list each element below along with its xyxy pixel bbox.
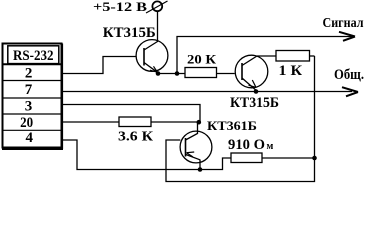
wire signal riser to Signal output — [177, 37, 352, 74]
wire Q3 base left and down to bottom rail — [166, 56, 315, 182]
connector row separator 20/4 — [3, 129, 62, 131]
transistor Q1 emitter diagonal — [144, 63, 158, 73]
wire pin 4 down and right to Q3 collector rail — [63, 140, 201, 170]
transistor Q3 emitter diagonal — [186, 155, 200, 160]
svg-text:Сигнал: Сигнал — [323, 16, 364, 31]
transistor Q2 collector diagonal — [242, 56, 257, 66]
transistor Q3 emitter arrowhead — [187, 152, 195, 157]
wire Q2 collector to resistor R2 — [257, 55, 276, 57]
resistor R4 910 body — [231, 153, 262, 163]
transistor Q3 collector diagonal and lead up — [186, 122, 198, 140]
connector row separator 7/3 — [3, 97, 62, 99]
transistor Q2 emitter arrowhead — [249, 80, 257, 87]
svg-text:2: 2 — [25, 66, 33, 82]
svg-text:КТ361Б: КТ361Б — [207, 118, 257, 133]
transistor Q2 KT315B circle — [235, 55, 268, 88]
connector RS-232 header cell thick bottom — [3, 63, 62, 65]
wire supply vertical to Q1 collector — [157, 12, 159, 43]
wire node collector to resistor R4 — [200, 158, 231, 170]
svg-text:КТ315Б: КТ315Б — [103, 25, 156, 41]
svg-text:1 К: 1 К — [279, 63, 303, 79]
svg-text:20: 20 — [20, 115, 33, 131]
connector RS-232 outer box — [3, 44, 62, 148]
power terminal slash — [146, 1, 168, 13]
connector row separator 2/7 — [3, 80, 62, 82]
transistor Q2 base bar — [241, 63, 243, 80]
junction dot Q3 emitter on pin4 rail — [198, 167, 203, 172]
junction dot node B 910 to vertical — [312, 156, 317, 161]
svg-text:3: 3 — [25, 99, 33, 115]
connector RS-232 shadow bottom — [2, 147, 63, 150]
transistor Q1 collector diagonal — [144, 42, 158, 51]
svg-text:+5-12 В: +5-12 В — [93, 0, 147, 14]
signal output arrowhead — [339, 32, 355, 41]
transistor Q1 emitter arrowhead — [150, 66, 158, 72]
junction dot node A pin3/pin20/Q3 collector — [197, 120, 202, 125]
svg-text:RS-232: RS-232 — [13, 48, 54, 64]
svg-text:4: 4 — [25, 130, 33, 146]
svg-text:7: 7 — [25, 82, 33, 98]
svg-text:3.6 К: 3.6 К — [118, 130, 154, 145]
svg-text:Общ.: Общ. — [334, 67, 364, 83]
transistor Q3 KT361B circle — [180, 131, 212, 163]
svg-text:910 О: 910 О — [228, 137, 265, 153]
common output arrowhead — [342, 87, 358, 96]
svg-text:м: м — [267, 141, 274, 152]
resistor R1 20K body — [185, 68, 217, 78]
wire resistor R2 to vertical x314 — [310, 55, 315, 57]
svg-text:20 К: 20 К — [187, 52, 217, 67]
svg-text:КТ315Б: КТ315Б — [230, 95, 279, 111]
resistor R2 1K body — [276, 51, 310, 62]
transistor Q1 KT315B circle — [136, 40, 168, 72]
power terminal +5-12V circle — [152, 1, 162, 11]
connector row separator 3/20 — [3, 113, 62, 115]
transistor Q2 emitter diagonal — [242, 78, 256, 91]
wire pin 7 to Common output — [63, 91, 353, 93]
resistor R3 3.6K body — [119, 117, 151, 127]
wire pin 20 to resistor R3 — [63, 121, 120, 123]
connector RS-232 shadow right — [61, 44, 63, 150]
junction dot Q2 emitter on common line — [254, 89, 259, 94]
transistor Q3 emitter lead down — [199, 160, 201, 170]
transistor Q3 base bar — [185, 138, 187, 157]
wire resistor R1 to Q2 base — [217, 73, 235, 75]
wire Q1 emitter to resistor R1 — [158, 73, 185, 75]
wire pin 3 down to node A — [63, 105, 201, 123]
wire resistor R3 to node A — [151, 121, 198, 123]
connector RS-232 header cell — [8, 46, 59, 64]
transistor Q1 base bar — [143, 48, 145, 66]
wire resistor R4 to node B — [262, 157, 315, 159]
wire pin 2 to Q1 base — [63, 57, 137, 74]
junction dot Q1 emitter node — [156, 71, 161, 76]
junction dot signal riser node — [175, 71, 180, 76]
